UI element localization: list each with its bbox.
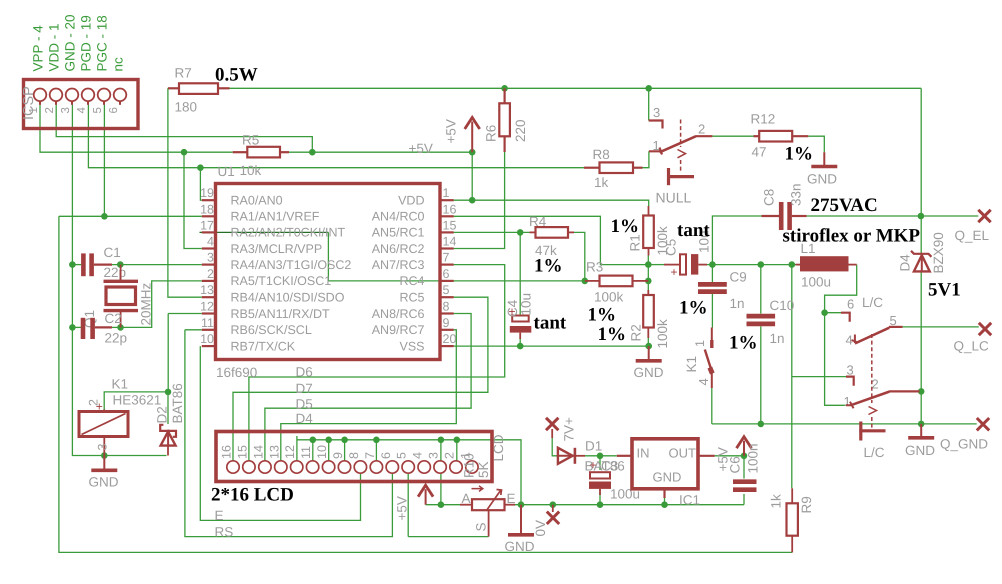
diode D1 lead through triangle xyxy=(557,455,576,457)
svg-text:1: 1 xyxy=(443,186,450,200)
ICSP pin 2 circle xyxy=(50,89,63,102)
junction R3 right R2 top xyxy=(645,278,652,285)
wire IC pin5 down to D7 row to LCD pin16 xyxy=(233,297,488,461)
svg-text:AN4/RC0: AN4/RC0 xyxy=(372,210,425,224)
wire 7V+ to D1 xyxy=(552,438,558,456)
junction R4 left C4 xyxy=(517,229,524,236)
junction L/C pin6 xyxy=(821,309,828,316)
svg-text:C6: C6 xyxy=(728,456,743,473)
relay K1 pin3 lead xyxy=(103,437,105,456)
capacitor C4 top plate xyxy=(512,316,529,322)
svg-text:4: 4 xyxy=(207,235,214,249)
switch L/C pin1 stub xyxy=(846,402,854,409)
terminal Q_EL xyxy=(978,210,990,222)
svg-text:2: 2 xyxy=(207,267,214,281)
wire C9 C10 L1 bus xyxy=(712,264,795,266)
wire relay pin2 feed xyxy=(104,392,168,410)
svg-text:15: 15 xyxy=(235,445,249,459)
svg-text:OUT: OUT xyxy=(669,446,697,461)
svg-text:220: 220 xyxy=(513,119,528,142)
capacitor C5 right lead xyxy=(698,264,707,266)
switch NULL actuator spring xyxy=(678,150,686,158)
svg-text:+: + xyxy=(590,458,597,472)
resistor R5 body xyxy=(247,147,280,158)
svg-text:LCD: LCD xyxy=(491,434,506,461)
svg-text:VDD: VDD xyxy=(398,194,424,208)
svg-text:RA0/AN0: RA0/AN0 xyxy=(231,194,283,208)
svg-text:10k: 10k xyxy=(240,163,262,178)
diode D2 cathode bar with schottky hooks xyxy=(160,425,176,437)
switch L/C upper lever xyxy=(855,328,889,344)
svg-text:16: 16 xyxy=(443,202,457,216)
svg-text:RA2/AN2/T0CKI/INT: RA2/AN2/T0CKI/INT xyxy=(231,226,346,240)
svg-text:16: 16 xyxy=(220,445,234,459)
U1 left pin 10 stub xyxy=(202,345,216,347)
svg-text:L/C: L/C xyxy=(862,295,883,310)
junction R3 left xyxy=(582,278,589,285)
svg-text:100n: 100n xyxy=(746,443,761,473)
svg-text:AN6/RC2: AN6/RC2 xyxy=(372,242,425,256)
svg-text:6: 6 xyxy=(443,267,450,281)
svg-text:2: 2 xyxy=(698,122,705,137)
svg-text:+5V: +5V xyxy=(444,119,459,143)
svg-text:1%: 1% xyxy=(785,144,814,165)
wire L/C pin3 feed xyxy=(792,376,846,378)
junction 0V terminal xyxy=(550,501,557,508)
resistor R9 top lead xyxy=(791,488,793,503)
svg-text:180: 180 xyxy=(175,100,198,115)
U1 right pin 1 stub xyxy=(440,199,454,201)
capacitor C8 plates xyxy=(781,202,789,230)
wire R1 bottom lead green xyxy=(647,256,649,265)
svg-text:GND: GND xyxy=(634,365,664,380)
wire C3 bottom lead xyxy=(599,490,601,505)
junction top bus NULL xyxy=(645,85,652,92)
capacitor C2 plates xyxy=(83,318,93,339)
switch L/C actuator bar xyxy=(859,422,885,441)
svg-text:+5V: +5V xyxy=(409,141,433,156)
wire overlay vertical inside IC xyxy=(327,232,329,281)
svg-text:C9: C9 xyxy=(730,270,747,285)
wire right-edge rail down to Q_EL row xyxy=(920,88,922,216)
ICSP pin 1 stub xyxy=(39,101,41,105)
U1 right pin 9 stub xyxy=(440,329,454,331)
svg-text:0.5W: 0.5W xyxy=(215,65,258,86)
ICSP pin 3 stub xyxy=(71,101,73,105)
U1 right pin 6 stub xyxy=(440,280,454,282)
wire C5 right to C9 rail xyxy=(707,264,712,266)
svg-text:GND: GND xyxy=(89,475,119,490)
ground symbol R12 xyxy=(811,152,837,166)
wire IC pin10 rail down to LCD E row xyxy=(200,346,360,520)
switch K1 contact pin4 stub xyxy=(711,373,713,388)
LCD pin 2 circle xyxy=(450,461,462,473)
resistor R9 body xyxy=(787,503,798,535)
wire L/C pin6 hook lead xyxy=(825,312,841,314)
ICSP pin 1 circle xyxy=(34,89,47,102)
resistor R4 right lead xyxy=(568,231,574,233)
potentiometer R10 wiper diagonal xyxy=(486,490,501,511)
capacitor C5 left plate xyxy=(680,254,686,274)
svg-text:RB7/TX/CK: RB7/TX/CK xyxy=(231,339,296,353)
potentiometer R10 body xyxy=(472,499,505,510)
svg-text:R12: R12 xyxy=(751,112,776,127)
svg-text:D4: D4 xyxy=(296,411,314,426)
svg-text:K1: K1 xyxy=(684,356,699,373)
resistor R4 body xyxy=(536,227,569,238)
svg-text:9: 9 xyxy=(331,452,345,459)
wire D2 cathode lead xyxy=(167,392,169,424)
svg-text:100u: 100u xyxy=(801,275,831,290)
capacitor C6 plates xyxy=(733,482,757,490)
svg-text:PGC - 18: PGC - 18 xyxy=(95,15,110,71)
junction Q_EL rail xyxy=(918,213,925,220)
svg-text:VDD - 1: VDD - 1 xyxy=(47,23,62,71)
diode D4 triangle xyxy=(914,255,930,271)
diode D4 cathode bar zener xyxy=(911,251,931,257)
power +5V arrow IC1 xyxy=(737,437,752,456)
switch L/C pin2 stub xyxy=(889,390,920,392)
resistor R2 bottom lead xyxy=(647,328,649,339)
ICSP pin 3 circle xyxy=(66,89,79,102)
potentiometer R10 wiper lead xyxy=(488,511,490,537)
resistor R8 right lead xyxy=(633,167,643,169)
svg-text:10: 10 xyxy=(315,445,329,459)
wire R9 rail from bus junction xyxy=(791,265,793,489)
svg-text:1n: 1n xyxy=(730,296,745,311)
U1 right pin 15 stub xyxy=(440,231,454,233)
crystal Q1 top lead xyxy=(120,265,122,282)
svg-text:16f690: 16f690 xyxy=(216,365,257,380)
svg-text:3: 3 xyxy=(847,363,854,378)
inductor L1 left lead xyxy=(796,264,801,266)
regulator IC1 IN stub xyxy=(617,455,632,457)
wire IC pin1 VDD row to R1 top xyxy=(454,200,649,206)
wire IC1 OUT to +5V arrow xyxy=(715,455,744,457)
svg-text:A: A xyxy=(462,491,471,506)
junction LCD pin3 pot bus xyxy=(438,501,445,508)
wire RA2 overlay segment over IC body xyxy=(200,231,329,233)
LCD pin 11 circle xyxy=(306,461,318,473)
junction C4 bottom VSS xyxy=(517,343,524,350)
junction Q_GND right xyxy=(918,421,925,428)
wire crystal route to IC pin2 OSC1 xyxy=(121,281,202,328)
wire LCD pin3 stub xyxy=(440,440,442,461)
wire ICSP pin5 PGC down to pin18 net xyxy=(103,105,105,217)
wire C3 top lead xyxy=(599,456,601,470)
svg-text:8: 8 xyxy=(347,452,361,459)
switch L/C pin4 stub xyxy=(852,335,859,344)
svg-text:22p: 22p xyxy=(105,331,128,346)
svg-text:33n: 33n xyxy=(789,183,804,206)
wire IC pin8 down to D5 row to LCD pin14 xyxy=(265,314,471,462)
U1 right pin 16 stub xyxy=(440,215,454,217)
wire ICSP pin2 branch to +5V net xyxy=(56,105,312,153)
junction C10 ground bus xyxy=(758,421,765,428)
svg-text:13: 13 xyxy=(200,283,214,297)
wire IC pin11 rail down to LCD RS row xyxy=(185,330,393,537)
svg-text:4: 4 xyxy=(696,378,711,385)
svg-text:6: 6 xyxy=(847,297,854,312)
svg-text:K1: K1 xyxy=(112,377,129,392)
wire IC pin9 down to D4 row to LCD pin13 xyxy=(281,330,457,461)
ground symbol Q_GND xyxy=(908,424,934,438)
capacitor C1 plates xyxy=(83,253,91,276)
svg-text:12: 12 xyxy=(200,300,214,314)
svg-text:U1: U1 xyxy=(218,164,235,179)
junction LCD inner pin11 xyxy=(310,437,317,444)
svg-text:1: 1 xyxy=(844,394,851,409)
svg-text:AN8/RC6: AN8/RC6 xyxy=(372,307,425,321)
wire K1 pin4 down to ground bus xyxy=(711,388,713,424)
junction LCD inner pin9 xyxy=(341,437,348,444)
svg-text:5V1: 5V1 xyxy=(928,280,961,301)
svg-text:R6: R6 xyxy=(484,125,499,142)
junction C5 right C9 rail xyxy=(709,261,716,268)
svg-text:1%: 1% xyxy=(729,333,758,354)
svg-text:IN: IN xyxy=(637,446,650,461)
junction GND rail C2 xyxy=(69,324,76,331)
junction C3 bottom xyxy=(597,501,604,508)
switch L/C pin6 hook xyxy=(841,313,850,322)
switch K1 contact pin1 stub xyxy=(711,328,713,341)
LCD pin 14 circle xyxy=(259,461,271,473)
wire C5 bus from R1 junction xyxy=(648,264,664,266)
ICSP pin 6 circle xyxy=(114,89,127,102)
svg-text:1%: 1% xyxy=(598,324,627,345)
switch NULL lever xyxy=(660,136,697,152)
resistor R7 right lead xyxy=(218,87,230,89)
junction relay pin3 ground xyxy=(101,452,108,459)
svg-text:C1: C1 xyxy=(104,245,121,260)
switch L/C lower lever xyxy=(852,392,889,405)
switch L/C pin5 stub xyxy=(889,326,903,328)
junction LCD inner pin3 xyxy=(438,437,445,444)
regulator IC1 body xyxy=(632,439,698,489)
wire R1 bottom junction vertical to R3 right junction xyxy=(647,265,649,281)
wire C9 top lead xyxy=(711,265,713,282)
junction +5V arrow xyxy=(469,149,476,156)
switch K1 contact pin1 end xyxy=(710,340,713,348)
U1 left pin 19 stub xyxy=(202,199,216,201)
diode D2 anode lead xyxy=(167,446,169,456)
wire D4 anode down to L/C pin2 junction xyxy=(920,272,922,391)
LCD pin 9 circle xyxy=(338,461,350,473)
junction D2 relay net xyxy=(165,389,172,396)
diode D2 triangle xyxy=(161,432,176,446)
svg-text:19: 19 xyxy=(200,186,214,200)
junction R9 rail top xyxy=(789,261,796,268)
wire NULL pin2 to R12 xyxy=(712,135,753,137)
LCD pin 12 circle xyxy=(291,461,303,473)
svg-text:1%: 1% xyxy=(611,216,640,237)
junction C1 right xyxy=(117,261,124,268)
svg-text:BAT86: BAT86 xyxy=(170,383,185,423)
switch NULL actuator dashed line xyxy=(680,120,682,172)
svg-text:7V+: 7V+ xyxy=(562,417,577,442)
wire +5V arrow to pot A xyxy=(426,504,460,506)
svg-text:Q_EL: Q_EL xyxy=(955,228,990,243)
wire ICSP pin1 VPP rail to +5V row xyxy=(40,105,233,153)
LCD pin 10 circle xyxy=(322,461,334,473)
regulator IC1 GND stub xyxy=(663,489,665,498)
svg-text:D6: D6 xyxy=(296,365,313,380)
junction GND rail C1 xyxy=(69,261,76,268)
resistor R6 body xyxy=(499,103,510,136)
svg-text:22p: 22p xyxy=(104,265,127,280)
wire R12 right bend to GND xyxy=(808,136,824,152)
svg-text:RB4/AN10/SDI/SDO: RB4/AN10/SDI/SDO xyxy=(231,291,345,305)
LCD pin 16 circle xyxy=(227,461,239,473)
wire R4 right lead down to R3 junction xyxy=(568,232,585,281)
wire RC4 row through IC edge to R3 left junction xyxy=(328,280,584,282)
wire R2 top lead green xyxy=(647,281,649,290)
connector LCD box xyxy=(216,432,492,482)
LCD pin 13 circle xyxy=(275,461,287,473)
wire C2 left lead xyxy=(72,326,81,328)
LCD pin 3 circle xyxy=(434,461,446,473)
svg-text:C8: C8 xyxy=(762,189,777,206)
resistor R3 left lead xyxy=(585,280,600,282)
svg-text:12: 12 xyxy=(283,445,297,459)
wire R6 rail down to IC pin14 xyxy=(454,152,505,249)
ICSP pin 4 stub xyxy=(87,101,89,105)
potentiometer R10 arrow mark xyxy=(472,486,483,492)
switch L/C actuator dashed line xyxy=(871,334,873,429)
ICSP pin 5 stub xyxy=(103,101,105,105)
wire top bus from R7 to right edge xyxy=(230,87,922,89)
diode D4 lead through triangle xyxy=(921,254,923,272)
svg-text:20: 20 xyxy=(443,332,457,346)
capacitor C3 top plate xyxy=(590,472,610,478)
wire C1 left lead xyxy=(72,264,81,266)
svg-text:+: + xyxy=(671,265,678,279)
switch L/C pin3 hook xyxy=(846,377,854,386)
svg-text:HE3621: HE3621 xyxy=(113,393,162,408)
wire LCD pin3 drop to pot bus xyxy=(440,473,442,505)
svg-text:5K: 5K xyxy=(476,461,491,478)
svg-text:11: 11 xyxy=(299,446,313,459)
wire pin18 net long rail down to bottom bus xyxy=(59,216,792,552)
svg-text:E: E xyxy=(507,491,516,506)
resistor R1 bottom lead xyxy=(648,248,650,256)
resistor R4 left lead xyxy=(530,231,536,233)
junction LCD inner pin10 xyxy=(325,437,332,444)
svg-text:RB5/AN11/RX/DT: RB5/AN11/RX/DT xyxy=(231,307,330,321)
wire C9 bottom to K1 pin1 xyxy=(711,294,713,328)
junction top bus R6 xyxy=(501,85,508,92)
svg-text:nc: nc xyxy=(111,57,126,72)
svg-text:0V: 0V xyxy=(533,520,548,537)
svg-text:3: 3 xyxy=(207,251,214,265)
connector ICSP box xyxy=(24,80,139,129)
wire IC1 GND stub to bus xyxy=(664,497,666,505)
junction R1 bottom xyxy=(645,261,652,268)
wire PGD branch down to IC pin19 xyxy=(200,168,201,201)
terminal Q_GND xyxy=(977,418,989,430)
potentiometer R10 right lead xyxy=(505,504,516,506)
svg-text:2*16 LCD: 2*16 LCD xyxy=(211,485,294,506)
svg-text:11: 11 xyxy=(201,316,214,330)
resistor R12 left lead xyxy=(754,135,760,137)
svg-text:1: 1 xyxy=(653,138,660,153)
wire LCD pin9 stub xyxy=(344,440,346,461)
svg-text:GND - 20: GND - 20 xyxy=(63,14,78,71)
wire IC VSS row to GND xyxy=(454,345,649,347)
svg-text:tant: tant xyxy=(677,220,710,241)
junction C10 top xyxy=(758,261,765,268)
resistor R5 right lead xyxy=(280,151,289,153)
LCD pin 6 circle xyxy=(386,461,398,473)
potentiometer R10 left lead xyxy=(460,504,472,506)
svg-text:D4: D4 xyxy=(898,254,913,272)
wire C8 right to Q_EL xyxy=(807,215,979,217)
svg-text:AN5/RC1: AN5/RC1 xyxy=(372,226,425,240)
svg-text:IC1: IC1 xyxy=(679,493,700,508)
U1 left pin 3 stub xyxy=(202,264,216,266)
wire IC pin12 to D2 relay net xyxy=(168,314,202,392)
terminal 0V xyxy=(547,512,559,524)
U1 right pin 14 stub xyxy=(440,247,454,249)
junction pot E GND xyxy=(518,501,525,508)
svg-text:R9: R9 xyxy=(799,496,814,513)
resistor R1 body xyxy=(643,216,654,249)
resistor R8 body xyxy=(600,162,634,173)
relay K1 pin2 lead xyxy=(103,410,105,412)
wire VPP branch down to IC pin4 MCLR xyxy=(184,152,202,248)
diode D1 triangle xyxy=(558,448,573,464)
wire C10 top lead xyxy=(760,265,762,314)
switch NULL actuator bar xyxy=(667,168,694,185)
U1 right pin 7 stub xyxy=(440,264,454,266)
U1 left pin 13 stub xyxy=(202,296,216,298)
svg-text:GND: GND xyxy=(653,470,682,485)
svg-text:1: 1 xyxy=(693,340,707,347)
svg-text:VSS: VSS xyxy=(399,339,424,353)
svg-text:100k: 100k xyxy=(594,290,624,305)
U1 left pin 2 stub xyxy=(202,280,216,282)
wire C6 bottom bend to 0V bus xyxy=(743,494,745,505)
svg-text:13: 13 xyxy=(267,445,281,459)
svg-text:3: 3 xyxy=(96,444,110,451)
junction VDD rail xyxy=(469,197,476,204)
svg-text:3: 3 xyxy=(427,452,441,459)
svg-text:18: 18 xyxy=(200,202,214,216)
ground symbol VSS xyxy=(636,346,662,361)
wire Q_EL rail to D4 cathode xyxy=(920,216,922,254)
svg-text:6: 6 xyxy=(379,452,393,459)
svg-text:RA1/AN1/VREF: RA1/AN1/VREF xyxy=(231,210,320,224)
svg-text:GND: GND xyxy=(905,443,935,458)
power +5V arrow LCD xyxy=(418,485,433,505)
svg-text:AN9/RC7: AN9/RC7 xyxy=(372,323,425,337)
U1 right pin 20 stub xyxy=(440,345,454,347)
wire LCD pin7 stub xyxy=(375,440,377,461)
wire LCD pin11 stub xyxy=(312,440,314,461)
ICSP pin 5 circle xyxy=(98,89,111,102)
svg-text:1n: 1n xyxy=(770,331,785,346)
svg-text:2: 2 xyxy=(44,107,56,113)
capacitor C5 left lead xyxy=(664,264,680,266)
LCD pin 7 circle xyxy=(370,461,382,473)
wire C4 bottom to VSS row xyxy=(519,339,521,346)
wire ICSP pin3 GND rail down to relay ground row xyxy=(72,105,166,456)
svg-text:2: 2 xyxy=(87,399,101,406)
U1 right pin 8 stub xyxy=(440,312,454,314)
svg-text:RA4/AN3/T1GI/OSC2: RA4/AN3/T1GI/OSC2 xyxy=(231,258,352,272)
U1 left pin 4 stub xyxy=(202,247,216,249)
wire C8 left lead down to bus xyxy=(712,216,761,265)
